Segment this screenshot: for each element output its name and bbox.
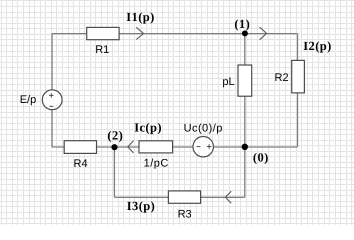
svg-text:Uc(0)/p: Uc(0)/p <box>184 122 223 134</box>
arrow I3 on bottom wire <box>225 191 231 203</box>
capacitor 1/pC (operator impedance) <box>139 141 173 170</box>
svg-text:E/p: E/p <box>20 94 37 106</box>
node (2) <box>107 128 123 150</box>
svg-text:R2: R2 <box>275 72 289 84</box>
wire bottom horizontal through R3 <box>114 196 244 198</box>
label I1(p) <box>126 10 154 24</box>
svg-text:(2): (2) <box>107 128 123 142</box>
wire left vertical through source E/p <box>51 34 53 147</box>
resistor R4 <box>64 141 96 170</box>
svg-text:I3(p): I3(p) <box>127 199 155 213</box>
label I2(p) <box>303 39 331 53</box>
wire top: node E/p corner to right corner <box>52 33 298 35</box>
wire middle horizontal from left corner to R2 branch <box>52 146 298 148</box>
wire pL branch vertical from node (1) to node (0) <box>244 34 246 147</box>
svg-text:(1): (1) <box>234 17 250 31</box>
arrow Ic toward node (2) <box>128 141 134 153</box>
resistor R2 <box>275 60 305 93</box>
node (0) <box>242 144 269 165</box>
svg-text:R4: R4 <box>74 158 88 170</box>
source E/p <box>20 90 62 110</box>
wire node (2) down to bottom wire <box>113 147 115 197</box>
inductor pL (operator impedance) <box>222 65 251 96</box>
node (1) <box>234 17 250 36</box>
svg-text:1/pC: 1/pC <box>144 158 169 170</box>
svg-text:I1(p): I1(p) <box>126 10 154 24</box>
label I3(p) <box>127 199 155 213</box>
svg-text:I2(p): I2(p) <box>303 39 331 53</box>
resistor R3 <box>168 191 200 221</box>
svg-text:pL: pL <box>222 76 234 88</box>
wire node (0) down to bottom wire <box>244 147 246 197</box>
arrow I2 after node (1) <box>260 27 267 40</box>
wire right vertical through R2 <box>297 34 299 147</box>
label Ic(p) <box>134 121 162 135</box>
svg-text:(0): (0) <box>253 151 269 165</box>
svg-text:R3: R3 <box>178 208 192 220</box>
resistor R1 <box>87 27 119 56</box>
svg-text:R1: R1 <box>95 44 109 56</box>
svg-text:Ic(p): Ic(p) <box>134 121 162 135</box>
arrow I1(p) on top wire <box>136 27 143 39</box>
source Uc(0)/p <box>184 122 223 157</box>
